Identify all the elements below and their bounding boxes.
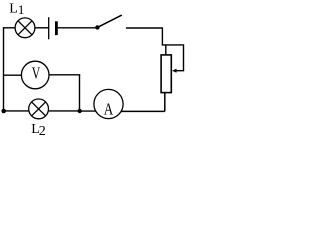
lamp L1 bbox=[15, 18, 35, 38]
wire lamp L1 to battery bbox=[35, 27, 49, 29]
wire left vertical bus bbox=[3, 27, 5, 111]
wire battery to switch bbox=[58, 27, 97, 29]
wire voltmeter right to branch corner bbox=[49, 74, 80, 76]
svg-text:L: L bbox=[9, 1, 18, 16]
wire voltmeter branch right vertical bbox=[79, 75, 81, 111]
wire rheostat bottom down to bottom rail bbox=[164, 93, 166, 112]
wire branch to rheostat wiper loop bbox=[162, 45, 184, 71]
svg-text:A: A bbox=[104, 100, 114, 119]
rheostat R body bbox=[161, 55, 171, 93]
wire junction to ammeter left bbox=[80, 110, 96, 112]
ammeter A bbox=[94, 89, 123, 118]
voltmeter V bbox=[21, 61, 49, 89]
rheostat wiper arrow shaft bbox=[175, 70, 185, 72]
battery positive plate (long) bbox=[48, 17, 50, 39]
battery negative plate (short thick) bbox=[55, 21, 58, 35]
wire bottom rail from ammeter to rheostat bbox=[121, 110, 165, 112]
wire left bus to voltmeter bbox=[4, 74, 22, 76]
switch S pivot dot bbox=[95, 25, 99, 29]
svg-text:2: 2 bbox=[39, 124, 46, 136]
svg-text:1: 1 bbox=[18, 2, 25, 17]
node junction dot right (L2/ammeter/voltmeter) bbox=[78, 109, 82, 113]
wire switch fixed contact to right corner bbox=[126, 27, 162, 29]
node junction dot left (bottom-left corner) bbox=[1, 109, 6, 114]
rheostat wiper arrowhead bbox=[172, 69, 177, 73]
wire rheostat top entry bbox=[165, 45, 167, 56]
lamp L2 bbox=[29, 99, 49, 119]
switch S lever (open) bbox=[97, 15, 121, 27]
wire right vertical from switch to loop corner bbox=[161, 27, 163, 45]
svg-text:V: V bbox=[32, 63, 41, 82]
wire top-left from corner to lamp L1 bbox=[4, 27, 16, 29]
wire lamp L2 to junction bbox=[48, 110, 80, 112]
wire bottom-left to lamp L2 bbox=[4, 110, 29, 112]
